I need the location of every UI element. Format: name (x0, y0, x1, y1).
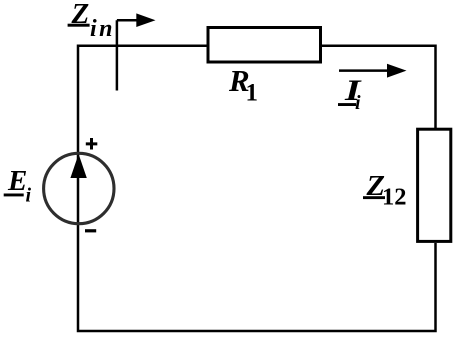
svg-text:12: 12 (382, 184, 407, 211)
svg-text:1: 1 (246, 79, 259, 106)
svg-text:i: i (26, 185, 32, 207)
svg-text:E: E (7, 165, 27, 197)
svg-text:i: i (355, 92, 361, 114)
svg-text:in: in (90, 16, 115, 42)
